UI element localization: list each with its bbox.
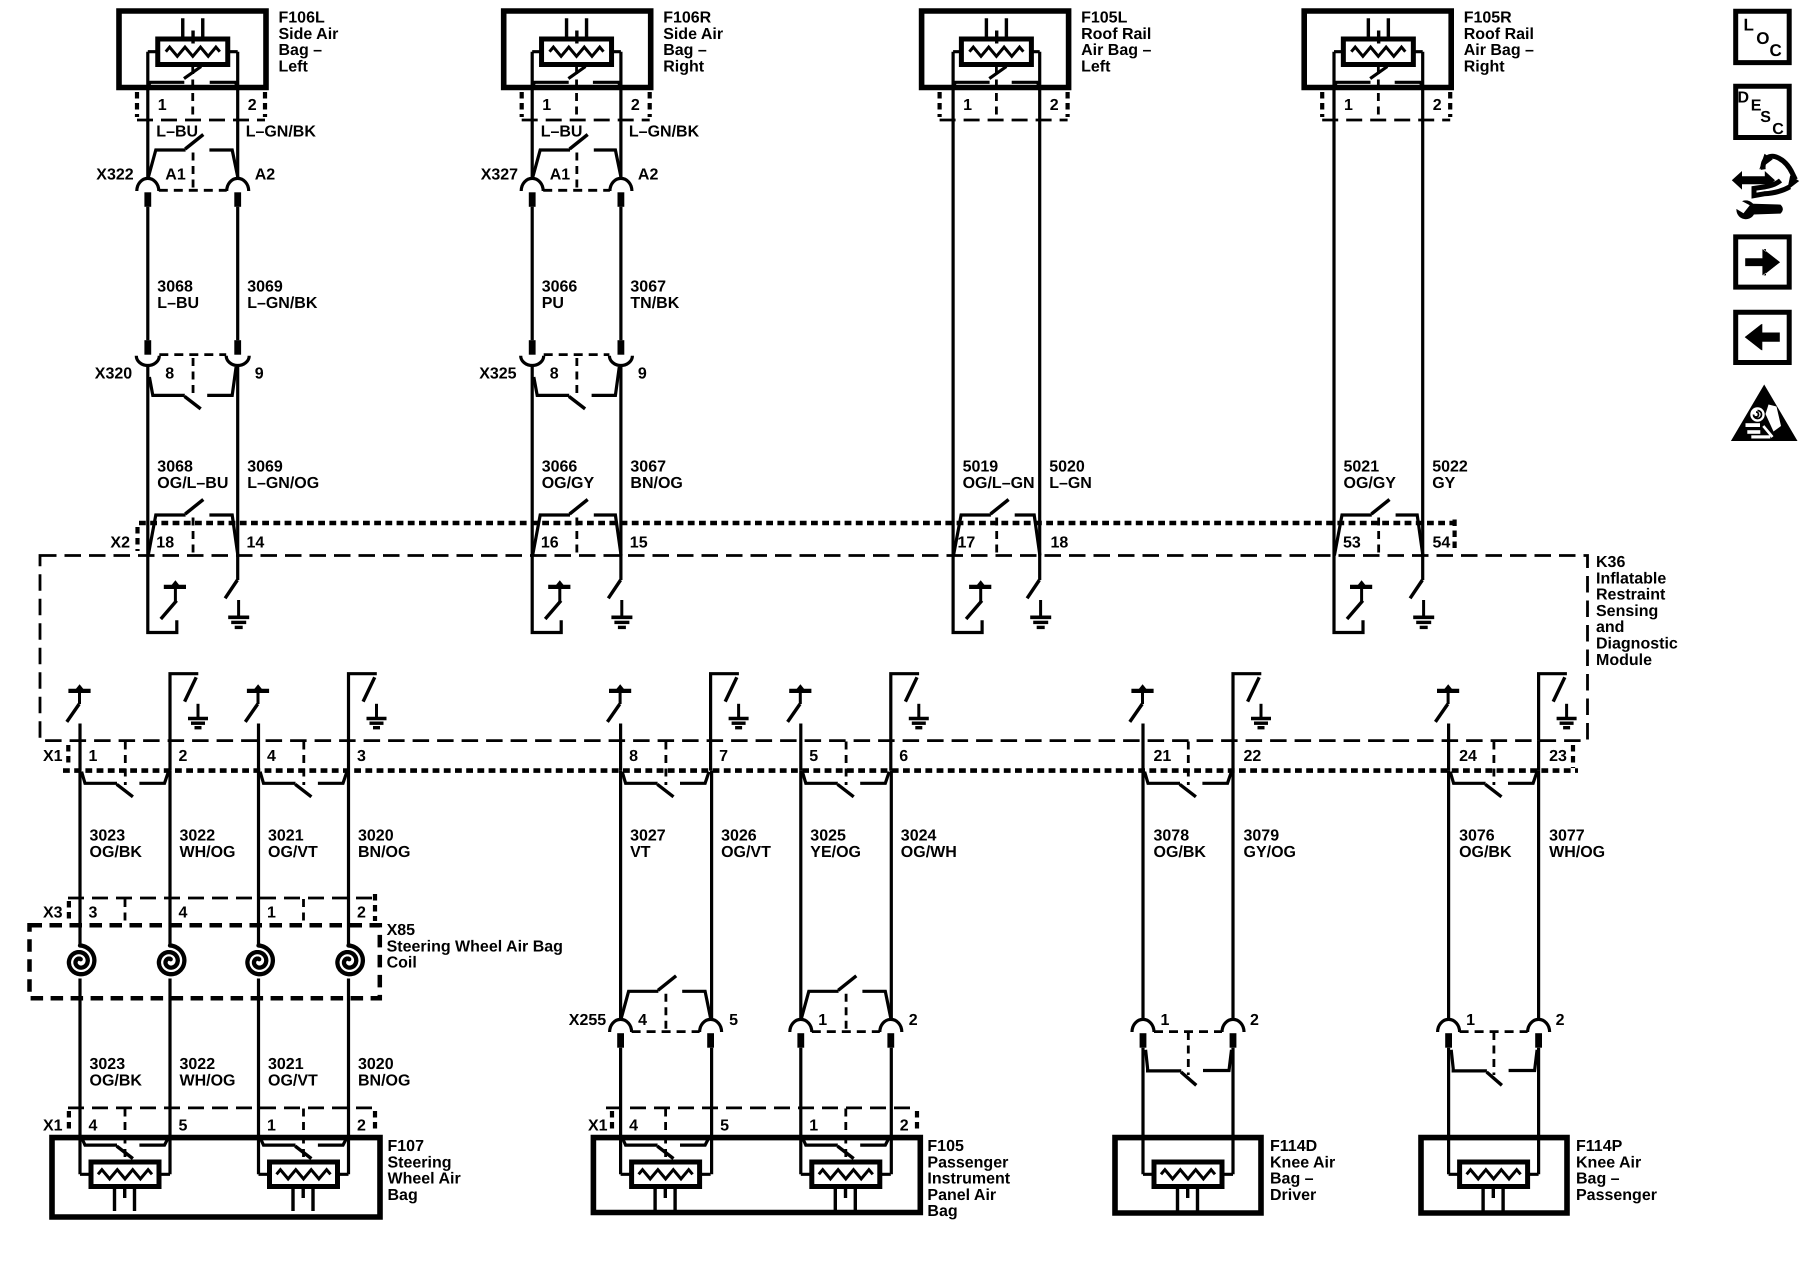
- squib resistor element: [1161, 1170, 1215, 1179]
- svg-text:Module: Module: [1596, 652, 1652, 669]
- svg-text:24: 24: [1459, 748, 1477, 765]
- connector terminal (female): [880, 1019, 902, 1032]
- svg-text:L–GN/BK: L–GN/BK: [246, 124, 317, 141]
- svg-text:3: 3: [357, 748, 366, 765]
- driver switch blade: [67, 704, 79, 722]
- connector mating bracket: [954, 515, 991, 556]
- svg-text:14: 14: [247, 535, 265, 552]
- svg-text:3025: 3025: [810, 828, 846, 845]
- deployment-loop voltage arrow (K36 driver): [1437, 689, 1459, 693]
- svg-text:Bag –: Bag –: [663, 42, 707, 59]
- svg-text:F106R: F106R: [663, 10, 711, 27]
- svg-text:X325: X325: [479, 366, 516, 383]
- wire pin 1 to K36: [1332, 52, 1335, 556]
- svg-text:1: 1: [267, 1118, 276, 1135]
- svg-text:5: 5: [729, 1012, 738, 1029]
- connector terminal (male pin): [1445, 1033, 1452, 1048]
- svg-text:BN/OG: BN/OG: [358, 1072, 410, 1089]
- connector terminal (male pin): [618, 340, 625, 355]
- svg-text:53: 53: [1343, 535, 1361, 552]
- connector switch blade: [570, 135, 588, 150]
- svg-text:8: 8: [165, 366, 174, 383]
- svg-text:Steering: Steering: [388, 1154, 452, 1171]
- wire pin 2 lead: [236, 52, 239, 179]
- ground switch blade: [905, 677, 917, 701]
- clockspring coil winding: [159, 946, 185, 975]
- svg-text:1: 1: [158, 97, 167, 114]
- svg-text:L–BU: L–BU: [156, 124, 198, 141]
- connector terminal (male pin): [707, 1033, 714, 1048]
- svg-text:3069: 3069: [247, 459, 283, 476]
- connector terminal (female): [137, 178, 159, 191]
- connector mating bracket: [534, 377, 569, 395]
- wire to X1 pin: [619, 724, 622, 771]
- svg-text:9: 9: [638, 366, 647, 383]
- svg-text:1: 1: [818, 1012, 827, 1029]
- driver switch blade: [607, 704, 619, 722]
- svg-text:3022: 3022: [180, 828, 216, 845]
- svg-text:7: 7: [719, 748, 728, 765]
- K36 internal wire to ground switch: [891, 674, 919, 741]
- svg-text:3026: 3026: [721, 828, 757, 845]
- wire to K36: [146, 366, 149, 556]
- F105 passenger instrument panel air bag box: [593, 1138, 920, 1213]
- svg-text:1: 1: [809, 1118, 818, 1135]
- svg-text:Diagnostic: Diagnostic: [1596, 636, 1678, 653]
- driver switch blade: [161, 601, 177, 619]
- pin-row centre dashed line: [575, 66, 578, 119]
- connector switch blade: [1485, 784, 1501, 797]
- ground switch blade: [363, 677, 375, 701]
- connector centre dashed line: [192, 358, 195, 396]
- svg-text:4: 4: [267, 748, 276, 765]
- squib lead connections: [259, 1173, 349, 1176]
- connector mating bracket: [1451, 1050, 1487, 1071]
- driver switch blade: [545, 601, 561, 619]
- squib initiator stub: [664, 1187, 667, 1199]
- wire circuit 3076: [1447, 771, 1450, 1021]
- svg-text:3078: 3078: [1154, 828, 1190, 845]
- connector terminal (female): [1132, 1019, 1154, 1032]
- connector terminal (male pin): [1535, 1033, 1542, 1048]
- connector X1 strip left edge: [66, 745, 70, 766]
- wire pin 2 lead: [619, 52, 622, 179]
- connector terminal (male pin): [234, 192, 241, 207]
- wire from coil: [347, 979, 350, 1175]
- svg-text:2: 2: [909, 1012, 918, 1029]
- squib initiator legs: [115, 1187, 135, 1212]
- ground switch blade: [1553, 677, 1565, 701]
- connector X1 (F105) right edge: [915, 1111, 919, 1133]
- connector terminal (female): [610, 1019, 632, 1032]
- icon double arrow with routing arrow and wrench: [1732, 171, 1775, 190]
- connector terminal (male pin): [618, 192, 625, 207]
- connector mating bracket: [802, 772, 837, 784]
- svg-text:3069: 3069: [247, 279, 283, 296]
- svg-text:2: 2: [1050, 97, 1059, 114]
- svg-text:OG/WH: OG/WH: [901, 844, 957, 861]
- connector switch blade: [185, 135, 203, 150]
- wire pin 1 to K36: [951, 52, 954, 556]
- svg-text:Panel Air: Panel Air: [927, 1187, 996, 1204]
- connector X2 strip left edge: [135, 527, 139, 551]
- ground switch blade: [725, 677, 737, 701]
- svg-text:Left: Left: [279, 58, 309, 75]
- K36 internal wire to ground switch: [619, 556, 622, 581]
- connector X1 centre dashed line: [302, 742, 305, 786]
- svg-text:2: 2: [357, 1118, 366, 1135]
- svg-text:GY/OG: GY/OG: [1244, 844, 1296, 861]
- svg-text:X1: X1: [43, 1118, 63, 1135]
- svg-text:F106L: F106L: [279, 10, 325, 27]
- svg-text:9: 9: [255, 366, 264, 383]
- connector centre dashed line: [575, 518, 578, 556]
- svg-text:2: 2: [179, 748, 188, 765]
- svg-text:A2: A2: [255, 167, 276, 184]
- connector X3 centre dashed line: [124, 899, 127, 924]
- svg-text:6: 6: [899, 748, 908, 765]
- svg-text:17: 17: [958, 535, 976, 552]
- connector centre dashed line: [664, 1109, 667, 1162]
- squib shorting-bar contact: [532, 67, 621, 87]
- connector terminal (female): [1528, 1019, 1550, 1032]
- X85 steering wheel air bag coil dashed box: [30, 925, 380, 998]
- connector mating bracket: [802, 1138, 837, 1146]
- svg-text:Air Bag –: Air Bag –: [1081, 42, 1151, 59]
- icon arrow-right box: [1736, 237, 1790, 287]
- icon arrow-left box: [1736, 312, 1790, 362]
- svg-text:PU: PU: [542, 295, 564, 312]
- squib resistor element: [819, 1170, 873, 1179]
- wire from coil: [168, 979, 171, 1175]
- squib resistor element: [1351, 47, 1405, 56]
- wire circuit 3025: [799, 771, 802, 1021]
- svg-text:Instrument: Instrument: [927, 1171, 1010, 1188]
- svg-text:22: 22: [1244, 748, 1262, 765]
- clockspring coil winding: [69, 946, 95, 975]
- svg-text:X255: X255: [569, 1012, 606, 1029]
- svg-text:OG/L–BU: OG/L–BU: [157, 475, 228, 492]
- airbag module F106L box: [119, 11, 266, 88]
- squib initiator legs: [293, 1187, 313, 1212]
- icon DESC box: [1736, 86, 1790, 137]
- ground: [197, 704, 200, 719]
- wire circuit 3077: [1537, 771, 1540, 1021]
- connector switch blade: [117, 784, 133, 797]
- icon wrench: [1736, 200, 1755, 219]
- svg-text:OG/VT: OG/VT: [268, 844, 318, 861]
- connector switch blade: [185, 500, 203, 515]
- svg-text:3027: 3027: [630, 828, 666, 845]
- svg-text:3: 3: [89, 905, 98, 922]
- clockspring coil winding: [247, 946, 273, 975]
- ground switch blade: [1248, 677, 1260, 701]
- svg-text:OG/VT: OG/VT: [268, 1072, 318, 1089]
- connector mating bracket: [82, 772, 117, 784]
- squib lead connections: [532, 50, 621, 53]
- wire pin 1 lead: [146, 52, 149, 179]
- K36 internal wire to ground switch: [1233, 674, 1261, 741]
- connector X1 centre dashed line: [665, 742, 668, 786]
- svg-text:Side Air: Side Air: [279, 26, 339, 43]
- svg-text:Knee Air: Knee Air: [1576, 1154, 1641, 1171]
- connector switch blade: [838, 1146, 854, 1159]
- wire circuit 3027: [619, 771, 622, 1021]
- connector terminal (male pin): [529, 340, 536, 355]
- connector terminal (male pin): [234, 340, 241, 355]
- driver switch blade: [1347, 601, 1363, 619]
- squib initiator stub: [995, 31, 998, 44]
- component connector pin row (dashed): [1322, 119, 1450, 122]
- connector terminal (female): [1438, 1019, 1460, 1032]
- svg-text:4: 4: [179, 905, 188, 922]
- svg-text:F105R: F105R: [1464, 10, 1512, 27]
- K36 internal wire to ground switch: [236, 556, 239, 581]
- connector X3 centre dashed line: [302, 899, 305, 924]
- svg-text:4: 4: [638, 1012, 647, 1029]
- svg-text:Driver: Driver: [1270, 1187, 1316, 1204]
- wire through X1 pin: [168, 741, 171, 771]
- svg-text:3068: 3068: [157, 459, 193, 476]
- connector mating bracket: [622, 1138, 657, 1146]
- connector mating bracket: [148, 150, 185, 178]
- svg-text:8: 8: [550, 366, 559, 383]
- squib initiator legs: [567, 18, 587, 39]
- K36 internal wire to ground switch: [1038, 556, 1041, 581]
- svg-text:X2: X2: [110, 535, 130, 552]
- svg-text:2: 2: [631, 97, 640, 114]
- wire circuit 3066: [531, 207, 534, 340]
- svg-text:K36: K36: [1596, 554, 1625, 571]
- svg-text:2: 2: [248, 97, 257, 114]
- driver switch blade: [245, 704, 257, 722]
- connector X1 centre dashed line: [124, 742, 127, 786]
- F114P knee air bag box: [1421, 1138, 1567, 1213]
- driver switch blade: [788, 704, 800, 722]
- deployment-loop voltage arrow (K36 driver): [1350, 585, 1372, 589]
- svg-text:8: 8: [629, 748, 638, 765]
- svg-text:3068: 3068: [157, 279, 193, 296]
- svg-text:3023: 3023: [90, 828, 126, 845]
- svg-text:Coil: Coil: [387, 955, 417, 972]
- svg-text:Right: Right: [663, 58, 705, 75]
- svg-text:Air Bag –: Air Bag –: [1464, 42, 1534, 59]
- wire circuit 3068: [146, 207, 149, 340]
- driver switch blade: [966, 601, 982, 619]
- svg-text:WH/OG: WH/OG: [1549, 844, 1605, 861]
- connector terminal (male pin): [797, 1033, 804, 1048]
- svg-text:18: 18: [1051, 535, 1069, 552]
- wire pin 2 to K36: [1421, 52, 1424, 556]
- svg-text:OG/BK: OG/BK: [90, 1072, 143, 1089]
- connector switch blade: [1371, 500, 1389, 515]
- svg-text:Roof Rail: Roof Rail: [1464, 26, 1534, 43]
- deployment-loop voltage arrow (K36 driver): [548, 585, 570, 589]
- connector terminal (male pin): [887, 1033, 894, 1048]
- svg-text:5019: 5019: [963, 459, 999, 476]
- svg-text:L–BU: L–BU: [541, 124, 583, 141]
- svg-text:BN/OG: BN/OG: [358, 844, 410, 861]
- connector terminal (female): [227, 178, 249, 191]
- squib resistor element: [550, 47, 604, 56]
- wire into air bag box: [1141, 1048, 1144, 1175]
- squib shorting-bar contact: [953, 67, 1040, 87]
- connector X1 (F107) right edge: [373, 1111, 377, 1133]
- squib resistor element: [277, 1170, 331, 1179]
- svg-text:OG/GY: OG/GY: [542, 475, 595, 492]
- component connector pin row (dashed): [137, 119, 265, 122]
- connector terminal (female): [790, 1019, 812, 1032]
- wire to X1 pin: [799, 724, 802, 771]
- connector mating bracket: [801, 991, 838, 1019]
- svg-text:3021: 3021: [268, 1056, 304, 1073]
- svg-text:C: C: [1770, 41, 1782, 60]
- connector centre dashed line: [845, 994, 848, 1032]
- ground switch blade: [185, 677, 197, 701]
- svg-text:Bag –: Bag –: [279, 42, 323, 59]
- wire through X1 pin: [889, 741, 892, 771]
- svg-text:1: 1: [267, 905, 276, 922]
- wire to F105: [799, 1048, 802, 1175]
- svg-text:18: 18: [156, 535, 174, 552]
- wire to F105: [710, 1048, 713, 1175]
- svg-text:1: 1: [1466, 1012, 1475, 1029]
- component connector pin row (dashed): [940, 119, 1068, 122]
- ground: [375, 704, 378, 719]
- svg-text:54: 54: [1433, 535, 1451, 552]
- connector mating bracket: [149, 377, 184, 395]
- clockspring coil winding: [337, 946, 363, 975]
- connector centre dashed line: [575, 358, 578, 396]
- svg-text:X322: X322: [96, 167, 133, 184]
- svg-text:D: D: [1738, 89, 1750, 106]
- svg-text:X3: X3: [43, 905, 63, 922]
- wire circuit 3079: [1231, 771, 1234, 1021]
- connector X3 right edge: [373, 894, 377, 921]
- svg-text:3023: 3023: [90, 1056, 126, 1073]
- connector mating bracket: [82, 1138, 117, 1146]
- connector X3 pin row (dashed): [68, 897, 375, 900]
- svg-text:WH/OG: WH/OG: [180, 844, 236, 861]
- wire to F105: [619, 1048, 622, 1175]
- wire circuit 3022 to X85 coil: [168, 771, 171, 945]
- component connector pin row (dashed): [522, 119, 650, 122]
- svg-text:VT: VT: [630, 844, 651, 861]
- squib initiator legs: [655, 1187, 675, 1212]
- squib lead connections: [148, 50, 238, 53]
- svg-text:OG/L–GN: OG/L–GN: [963, 475, 1035, 492]
- connector centre dashed line: [192, 153, 195, 191]
- deployment-loop voltage arrow (K36 driver): [247, 689, 269, 693]
- connector X1 (F105) pin row dashed: [606, 1107, 917, 1110]
- connector centre dashed line: [844, 1109, 847, 1162]
- squib resistor box: [961, 39, 1031, 65]
- svg-text:3067: 3067: [630, 459, 666, 476]
- K36 internal wire to ground switch: [349, 674, 377, 741]
- connector centre dashed line: [1493, 1032, 1496, 1075]
- wire pin 2 to K36: [1038, 52, 1041, 556]
- svg-text:1: 1: [1161, 1012, 1170, 1029]
- svg-text:Bag –: Bag –: [1576, 1171, 1620, 1188]
- svg-text:Passenger: Passenger: [927, 1154, 1008, 1171]
- squib initiator stub: [123, 1187, 126, 1199]
- connector X1 centre dashed line: [845, 742, 848, 786]
- squib resistor box: [812, 1162, 880, 1187]
- svg-text:L–BU: L–BU: [157, 295, 199, 312]
- connector terminal (male pin): [529, 192, 536, 207]
- pin-row centre dashed line: [995, 66, 998, 119]
- squib lead connections: [1334, 50, 1423, 53]
- K36 internal wire (J-loop): [148, 556, 177, 633]
- connector X1 strip right edge: [1571, 745, 1575, 768]
- squib lead connections: [621, 1173, 711, 1176]
- connector switch blade: [991, 500, 1009, 515]
- svg-text:3066: 3066: [542, 459, 578, 476]
- airbag module F105L box: [922, 11, 1069, 88]
- svg-text:23: 23: [1549, 748, 1567, 765]
- connector centre dashed line: [1187, 1032, 1190, 1075]
- squib resistor element: [639, 1170, 693, 1179]
- connector switch blade: [569, 396, 585, 409]
- squib initiator stub: [191, 31, 194, 44]
- wire circuit 3021 to X85 coil: [257, 771, 260, 945]
- svg-text:A1: A1: [550, 167, 571, 184]
- squib initiator stub: [1186, 1187, 1189, 1199]
- connector X3 left edge: [67, 901, 71, 922]
- svg-text:L–GN/BK: L–GN/BK: [629, 124, 700, 141]
- ground switch blade: [608, 580, 620, 598]
- svg-text:F105L: F105L: [1081, 10, 1127, 27]
- connector mating bracket: [260, 1138, 295, 1146]
- svg-text:Side Air: Side Air: [663, 26, 723, 43]
- squib initiator legs: [183, 18, 203, 39]
- inline connector for F114D: [1154, 1030, 1222, 1033]
- connector centre dashed line: [665, 994, 668, 1032]
- svg-text:OG/VT: OG/VT: [721, 844, 771, 861]
- wire from coil: [257, 979, 260, 1175]
- K36 internal wire (J-loop): [953, 556, 982, 633]
- svg-text:BN/OG: BN/OG: [630, 475, 682, 492]
- svg-text:X327: X327: [481, 167, 518, 184]
- squib lead connections: [801, 1173, 891, 1176]
- squib resistor element: [98, 1170, 152, 1179]
- svg-text:3020: 3020: [358, 828, 394, 845]
- svg-text:OG/BK: OG/BK: [1459, 844, 1512, 861]
- svg-text:2: 2: [1433, 97, 1442, 114]
- wire circuit 3026: [710, 771, 713, 1021]
- svg-text:A2: A2: [638, 167, 659, 184]
- svg-text:3076: 3076: [1459, 828, 1495, 845]
- K36 internal wire to ground switch: [170, 674, 198, 741]
- deployment-loop voltage arrow (K36 driver): [164, 585, 186, 589]
- squib resistor element: [969, 47, 1023, 56]
- wire circuit 3020 to X85 coil: [347, 771, 350, 945]
- svg-text:F105: F105: [927, 1138, 964, 1155]
- wire circuit 3023 to X85 coil: [78, 771, 81, 945]
- svg-text:3022: 3022: [180, 1056, 216, 1073]
- squib resistor box: [158, 39, 228, 65]
- squib resistor box: [1154, 1162, 1222, 1187]
- connector X1 centre dashed line: [1187, 742, 1190, 786]
- svg-text:Right: Right: [1464, 58, 1506, 75]
- svg-text:5: 5: [809, 748, 818, 765]
- squib lead connections: [1449, 1173, 1539, 1176]
- svg-text:L–GN/BK: L–GN/BK: [247, 295, 318, 312]
- squib resistor element: [166, 47, 220, 56]
- ground switch blade: [1027, 580, 1039, 598]
- connector switch blade: [1487, 1072, 1502, 1085]
- svg-text:YE/OG: YE/OG: [810, 844, 861, 861]
